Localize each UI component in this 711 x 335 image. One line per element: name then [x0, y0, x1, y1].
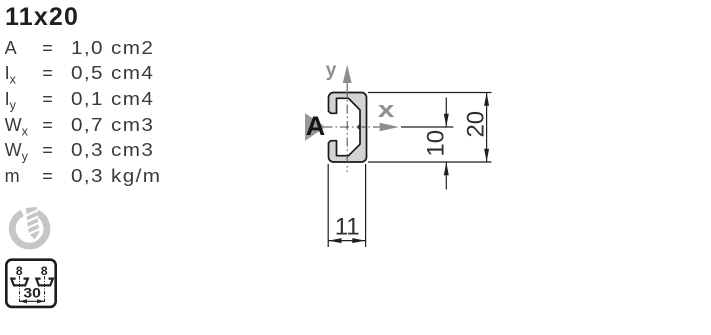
dim 11 line and arrows	[328, 240, 365, 242]
thread gaps	[26, 210, 40, 234]
row m	[5, 167, 20, 185]
slot centerline right	[44, 276, 46, 303]
row Ix	[5, 64, 16, 82]
dim 11 extension lines	[327, 164, 329, 247]
svg-text:11: 11	[335, 214, 360, 241]
dim 20: line and arrows	[486, 93, 488, 163]
slot symbol left	[11, 279, 28, 286]
row Iy	[5, 90, 16, 108]
slot centerline left	[19, 276, 21, 303]
y axis arrow	[346, 82, 348, 93]
profile cross-section 11x20	[329, 93, 367, 163]
screw-in icon (gray)	[12, 213, 47, 246]
svg-text:8: 8	[41, 264, 48, 278]
x axis extension to dim 10	[401, 126, 453, 128]
extension line bottom (for dims 20 and 10)	[368, 161, 492, 163]
slot icon box	[6, 260, 55, 307]
slot notch marker	[358, 124, 361, 129]
svg-text:A: A	[306, 111, 326, 141]
svg-text:30: 30	[23, 285, 41, 301]
title 11x20	[5, 5, 79, 30]
x axis arrow	[380, 123, 399, 132]
slot symbol right	[36, 279, 53, 286]
view arrow A (gray triangle)	[305, 113, 326, 141]
row A	[5, 39, 17, 57]
svg-text:y: y	[326, 60, 337, 81]
dim 10: line and arrows	[445, 98, 447, 128]
screw shaft	[26, 207, 40, 240]
dim 30 line with arrows	[20, 300, 45, 302]
svg-text:x: x	[378, 97, 396, 122]
row Wy	[5, 141, 28, 159]
svg-text:20: 20	[463, 111, 490, 138]
row Wx	[5, 116, 28, 134]
vertical centerline	[346, 88, 348, 172]
svg-text:10: 10	[423, 130, 450, 157]
svg-text:8: 8	[16, 264, 23, 278]
extension line top (for dim 20)	[368, 92, 492, 94]
horizontal centerline (x axis)	[307, 126, 380, 128]
